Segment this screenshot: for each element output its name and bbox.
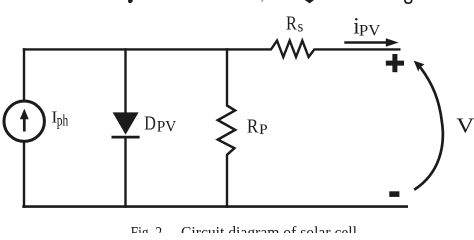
svg-text:ph: ph — [57, 113, 69, 130]
svg-text:D: D — [144, 112, 156, 134]
svg-text:s: s — [298, 18, 304, 35]
svg-text:V: V — [456, 114, 474, 138]
svg-text:PV: PV — [359, 23, 381, 40]
svg-text:R: R — [247, 116, 259, 138]
svg-text:PV: PV — [157, 119, 177, 136]
svg-text:Circuit diagram of solar cell: Circuit diagram of solar cell — [181, 223, 357, 233]
svg-text:R: R — [286, 12, 297, 34]
svg-text:P: P — [259, 122, 268, 138]
svg-text:Fig. 2.: Fig. 2. — [131, 223, 166, 233]
